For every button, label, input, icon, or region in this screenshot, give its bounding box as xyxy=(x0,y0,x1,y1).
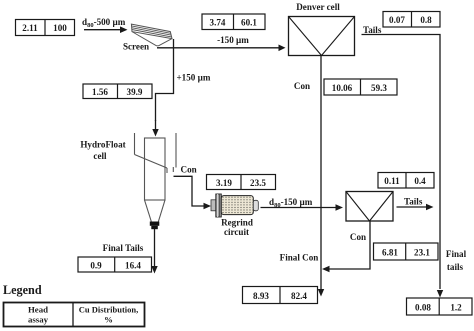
svg-text:0.11: 0.11 xyxy=(384,176,400,186)
svg-text:0.9: 0.9 xyxy=(90,260,102,270)
label Legend xyxy=(3,283,42,297)
svg-text:tails: tails xyxy=(447,262,464,272)
label d80-500 um xyxy=(82,17,126,29)
denver cell xyxy=(289,17,355,56)
svg-text:Final Tails: Final Tails xyxy=(103,243,144,253)
label Con (denver) xyxy=(294,81,310,91)
box hydrofloat con assay 3.19|23.5 xyxy=(207,175,276,190)
wire regrind to cleaner cell xyxy=(261,204,344,211)
svg-text:Legend: Legend xyxy=(3,283,42,297)
label Final Con xyxy=(280,253,319,263)
wire feed arrow into screen xyxy=(84,26,128,33)
box screen oversize assay 1.56|39.9 xyxy=(83,84,152,99)
label Con (hydrofloat) xyxy=(181,165,197,175)
screen xyxy=(131,24,172,46)
label Screen xyxy=(123,42,149,52)
svg-text:0.07: 0.07 xyxy=(389,15,405,25)
svg-text:Con: Con xyxy=(294,81,310,91)
wire screen undersize to Denver cell (-150 um) xyxy=(157,45,286,52)
svg-text:82.4: 82.4 xyxy=(291,291,307,301)
wire hydrofloat tails down (final tails) xyxy=(151,229,157,274)
label Regrind circuit xyxy=(221,218,253,238)
wire hydrofloat con to regrind xyxy=(174,176,212,209)
wire cleaner con to final con xyxy=(322,221,370,272)
svg-text:3.74: 3.74 xyxy=(210,17,226,27)
svg-text:0.8: 0.8 xyxy=(420,15,432,25)
regrind mill xyxy=(211,194,258,217)
box screen undersize assay 3.74|60.1 xyxy=(202,14,265,30)
label Final tails (right) xyxy=(446,249,467,272)
svg-text:+150 µm: +150 µm xyxy=(177,73,211,83)
box feed assay 2.11|100 xyxy=(16,20,75,36)
svg-text:0.4: 0.4 xyxy=(414,176,426,186)
hydrofloat cell xyxy=(135,133,177,222)
svg-text:HydroFloat: HydroFloat xyxy=(80,140,125,150)
svg-text:Tails: Tails xyxy=(404,197,423,207)
valve at hydrofloat underflow xyxy=(150,222,160,230)
svg-text:0.08: 0.08 xyxy=(415,303,431,313)
legend box xyxy=(4,303,145,327)
svg-text:23.1: 23.1 xyxy=(414,248,430,258)
svg-text:Head: Head xyxy=(28,305,48,315)
svg-text:Con: Con xyxy=(181,165,197,175)
box denver tails assay 0.07|0.8 xyxy=(383,12,440,28)
svg-text:Screen: Screen xyxy=(123,42,149,52)
svg-text:Cu Distribution,: Cu Distribution, xyxy=(79,305,139,315)
svg-text:2.11: 2.11 xyxy=(22,23,38,33)
cleaner cell xyxy=(346,192,393,222)
svg-text:cell: cell xyxy=(93,151,107,161)
svg-text:6.81: 6.81 xyxy=(382,248,398,258)
box cleaner con assay 6.81|23.1 xyxy=(374,243,439,260)
wire denver tails to final tails line xyxy=(362,35,444,298)
svg-text:39.9: 39.9 xyxy=(127,87,143,97)
label Tails (denver) xyxy=(363,25,382,35)
box denver con assay 10.06|59.3 xyxy=(324,79,397,95)
wire denver con down to final con xyxy=(318,56,324,297)
label d80-150 um xyxy=(269,197,313,209)
svg-text:Regrind: Regrind xyxy=(221,218,253,228)
label +150 um xyxy=(177,73,211,83)
box final tails assay 0.08|1.2 xyxy=(407,298,473,315)
wire cleaner tails arrow xyxy=(397,204,434,211)
svg-text:d80-500 µm: d80-500 µm xyxy=(82,17,126,29)
wire screen oversize down (+150 um) xyxy=(152,39,173,137)
svg-text:8.93: 8.93 xyxy=(253,291,269,301)
svg-text:Final: Final xyxy=(446,249,467,259)
label HydroFloat cell xyxy=(80,140,125,162)
svg-text:assay: assay xyxy=(28,315,49,325)
svg-text:Tails: Tails xyxy=(363,25,382,35)
label Con (cleaner) xyxy=(350,232,366,242)
svg-text:circuit: circuit xyxy=(224,227,249,237)
svg-text:100: 100 xyxy=(53,23,67,33)
svg-text:59.3: 59.3 xyxy=(371,83,387,93)
box final con assay 8.93|82.4 xyxy=(243,287,318,304)
label Final Tails xyxy=(103,243,144,253)
box cleaner feed assay 0.11|0.4 xyxy=(378,173,434,189)
svg-text:1.2: 1.2 xyxy=(450,303,462,313)
svg-text:23.5: 23.5 xyxy=(250,178,266,188)
label Denver cell xyxy=(296,2,340,12)
svg-text:1.56: 1.56 xyxy=(92,87,108,97)
label -150 um xyxy=(217,35,249,45)
svg-text:10.06: 10.06 xyxy=(332,83,353,93)
label Tails (cleaner) xyxy=(404,197,423,207)
svg-text:Final Con: Final Con xyxy=(280,253,319,263)
svg-text:Denver cell: Denver cell xyxy=(296,2,340,12)
svg-text:-150 µm: -150 µm xyxy=(217,35,249,45)
box hydrofloat tails assay 0.9|16.4 xyxy=(78,257,152,272)
svg-text:Con: Con xyxy=(350,232,366,242)
svg-text:3.19: 3.19 xyxy=(216,178,232,188)
svg-text:16.4: 16.4 xyxy=(125,260,141,270)
svg-text:60.1: 60.1 xyxy=(241,17,257,27)
svg-text:%: % xyxy=(104,315,113,325)
